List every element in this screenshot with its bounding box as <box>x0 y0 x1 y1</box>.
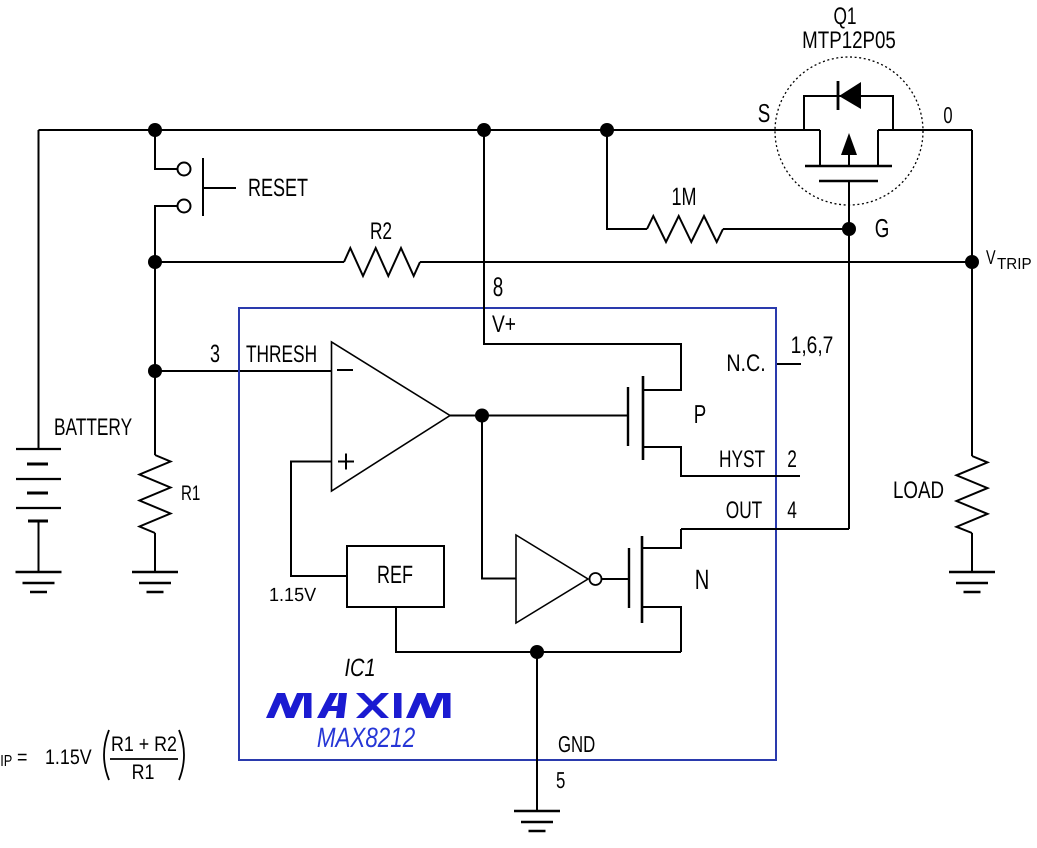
svg-text:4: 4 <box>787 497 797 524</box>
transistor Q1 channel bar <box>805 165 892 168</box>
wire inverter input branch <box>482 416 516 579</box>
svg-text:Q1: Q1 <box>833 3 856 30</box>
node junction 1M top <box>600 123 614 137</box>
resistor LOAD <box>957 456 988 533</box>
switch RESET actuator stem <box>203 187 236 189</box>
transistor P source stub <box>643 389 681 391</box>
wire Q1 gate vertical <box>848 181 850 529</box>
svg-text:N: N <box>695 564 710 595</box>
wire battery to ground <box>38 521 40 572</box>
svg-text:RIP: RIP <box>0 753 12 770</box>
logo MAXIM <box>266 693 451 718</box>
svg-text:0: 0 <box>943 102 952 128</box>
switch RESET contact circle lower <box>178 200 191 213</box>
wire left rail to battery <box>38 130 40 449</box>
battery plates <box>16 449 61 521</box>
ground below battery <box>16 572 62 592</box>
svg-text:S: S <box>758 98 770 128</box>
wire LOAD to ground <box>971 533 973 572</box>
transistor Q1 body circle <box>775 57 923 205</box>
wire top rail left segment <box>39 129 821 131</box>
IC1 box MAX8212 <box>239 308 776 760</box>
svg-text:GND: GND <box>558 731 595 757</box>
transistor Q1 gate bar <box>819 180 878 183</box>
svg-text:IC1: IC1 <box>344 654 375 682</box>
op-amp comparator triangle <box>332 342 451 491</box>
svg-text:MTP12P05: MTP12P05 <box>802 27 896 54</box>
switch RESET actuator bar <box>202 158 204 216</box>
wire inverter output <box>602 578 629 580</box>
ground below pin 5 <box>514 811 560 831</box>
svg-text:2: 2 <box>787 446 797 473</box>
resistor R1 <box>140 455 171 533</box>
wire R2 left lead <box>155 261 344 263</box>
wire OUT pin 4 <box>681 528 849 530</box>
wire op-amp output <box>450 415 628 417</box>
svg-text:HYST: HYST <box>719 446 765 473</box>
op-amp minus sign <box>337 369 353 371</box>
svg-text:1,6,7: 1,6,7 <box>791 332 834 359</box>
node junction G <box>842 222 856 236</box>
transistor P channel bar <box>642 376 645 460</box>
wire left column down to R1 <box>154 262 156 455</box>
transistor Q1 body diode loop <box>804 96 893 130</box>
REF box <box>347 546 444 607</box>
transistor Q1 diode triangle <box>839 82 861 109</box>
transistor N gate bar <box>628 548 630 608</box>
svg-text:RESET: RESET <box>248 174 308 202</box>
svg-text:R1: R1 <box>181 482 200 505</box>
resistor R2 <box>344 248 420 276</box>
svg-text:1.15V: 1.15V <box>269 585 316 606</box>
node junction top-left <box>148 123 162 137</box>
svg-text:R1: R1 <box>132 761 155 784</box>
svg-text:1.15V: 1.15V <box>45 746 92 769</box>
wire reset lower branch <box>155 206 177 262</box>
node junction op-amp output <box>475 409 489 423</box>
wire right rail to LOAD <box>971 130 973 456</box>
wire REF to ground rail <box>396 607 681 652</box>
svg-text:5: 5 <box>556 767 565 793</box>
wire op-amp plus input to REF <box>291 462 347 577</box>
node junction THRESH <box>148 364 162 378</box>
wire N source down <box>642 607 681 652</box>
svg-text:G: G <box>875 213 890 243</box>
wire THRESH lead <box>155 370 331 372</box>
svg-text:P: P <box>694 399 706 429</box>
transistor N channel bar <box>641 536 644 623</box>
wire top rail right segment <box>878 129 972 131</box>
ground below LOAD <box>949 572 995 592</box>
wire N drain to OUT <box>642 529 681 548</box>
wire V+ branch <box>484 130 681 390</box>
svg-text:N.C.: N.C. <box>726 350 765 377</box>
transistor Q1 diode cathode bar <box>837 81 840 110</box>
svg-text:V+: V+ <box>492 311 516 338</box>
formula VTRIP equation <box>0 730 184 784</box>
svg-text:R2: R2 <box>370 218 392 245</box>
node junction V+ top <box>477 123 491 137</box>
transistor P gate bar <box>627 387 629 446</box>
svg-text:R1 + R2: R1 + R2 <box>111 733 177 756</box>
svg-text:LOAD: LOAD <box>893 477 944 504</box>
wire VTRIP line <box>420 261 972 263</box>
wire HYST pin 2 <box>643 447 800 476</box>
svg-text:3: 3 <box>210 340 220 368</box>
svg-text:TRIP: TRIP <box>997 256 1032 273</box>
transistor Q1 source electrode <box>819 130 821 166</box>
svg-text:OUT: OUT <box>726 497 763 524</box>
wire 1M to gate node <box>723 228 849 230</box>
node junction GND <box>530 645 544 659</box>
svg-text:V: V <box>986 247 996 269</box>
ground below R1 <box>132 572 178 592</box>
svg-text:REF: REF <box>377 561 413 589</box>
svg-text:1M: 1M <box>671 183 696 211</box>
node junction R2 left <box>148 255 162 269</box>
transistor Q1 drain electrode <box>877 130 879 166</box>
wire N.C. pin stub <box>777 363 801 365</box>
wire R1 to ground <box>154 533 156 572</box>
wire GND pin 5 <box>536 652 538 811</box>
op-amp plus sign <box>338 454 354 470</box>
node junction VTRIP <box>965 255 979 269</box>
transistor Q1 arrow stem <box>848 155 850 166</box>
transistor Q1 substrate arrow <box>841 133 857 155</box>
inverter triangle <box>516 535 588 623</box>
svg-text:8: 8 <box>493 272 504 302</box>
svg-text:BATTERY: BATTERY <box>54 414 132 441</box>
wire reset upper branch <box>155 130 177 169</box>
resistor 1M <box>647 216 723 242</box>
svg-text:MAX8212: MAX8212 <box>317 722 416 753</box>
svg-text:=: = <box>17 746 27 769</box>
inverter bubble <box>590 573 602 585</box>
label VTRIP <box>986 247 1032 273</box>
switch RESET contact circle upper <box>178 163 191 176</box>
wire 1M branch <box>607 130 647 229</box>
svg-text:THRESH: THRESH <box>246 341 317 368</box>
